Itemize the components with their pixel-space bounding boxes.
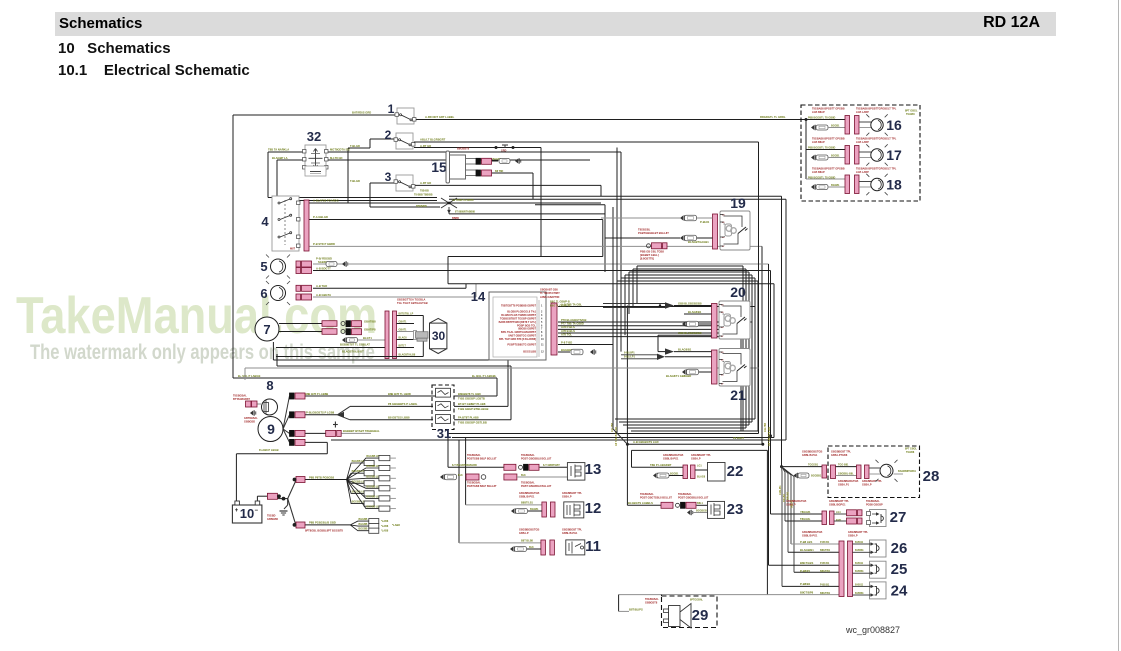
- svg-text:28: 28: [923, 468, 940, 485]
- svg-text:P78 BLAGBGTS/GB: P78 BLAGBGTS/GB: [561, 318, 586, 322]
- svg-text:BLAG8/B1: BLAG8/B1: [678, 347, 692, 351]
- svg-text:BLAG8: BLAG8: [399, 336, 408, 339]
- svg-text:P-B8 B1: P-B8 B1: [820, 541, 830, 544]
- svg-text:BLAGBTA/LB8: BLAGBTA/LB8: [399, 353, 416, 356]
- svg-text:15: 15: [431, 159, 447, 175]
- svg-text:BT-BT GB8BT PLAB8: BT-BT GB8BT PLAB8: [458, 402, 486, 406]
- svg-text:BTTAGBGB8T: BTTAGBGB8T: [233, 398, 250, 401]
- svg-text:8-T GBBTGBT: 8-T GBBTGBT: [543, 464, 560, 467]
- svg-text:16: 16: [886, 117, 902, 133]
- svg-text:B8L1: B8L1: [697, 502, 704, 505]
- svg-text:T8GBAB8 BPGBTT GPGBB: T8GBAB8 BPGBTT GPGBB: [812, 108, 845, 111]
- svg-text:29: 29: [692, 607, 709, 624]
- svg-text:3: 3: [385, 170, 392, 184]
- svg-text:T8GBAB8 BPGBTTGPGBGLT TPL: T8GBAB8 BPGBTTGPGBGLT TPL: [856, 108, 897, 111]
- svg-text:BGGBB: BGGBB: [359, 528, 368, 531]
- svg-text:8T 8888/8TABB88: 8T 8888/8TABB88: [455, 211, 476, 214]
- svg-text:P-B8/P1: P-B8/P1: [800, 569, 811, 573]
- svg-text:BLAGBP LA: BLAGBP LA: [272, 156, 288, 160]
- svg-text:B-BB81: B-BB81: [855, 549, 864, 552]
- svg-text:B+ BGL P LABGBL: B+ BGL P LABGBL: [472, 374, 497, 378]
- svg-text:M8T: M8T: [290, 248, 295, 251]
- svg-text:[8.8GBTT8]: [8.8GBTT8]: [640, 257, 654, 261]
- svg-text:BLGB8 PLGB TGBB8 GBPBT: BLGB8 PLGB TGBB8 GBPBT: [501, 314, 536, 317]
- svg-text:B8T1T: B8T1T: [399, 344, 407, 347]
- svg-text:GBAT1: GBAT1: [399, 320, 408, 323]
- svg-text:GBGBGTTGA TGGBLA: GBGBGTTGA TGGBLA: [397, 298, 426, 302]
- svg-text:T8B-BB: T8B-BB: [420, 190, 429, 193]
- svg-text:GBB-LP1: GBB-LP1: [838, 484, 850, 487]
- svg-text:GBBGBD: GBBGBD: [244, 421, 255, 424]
- svg-text:P-B/ RDGBD: P-B/ RDGBD: [316, 257, 332, 261]
- svg-text:GB8 BLGBGBGB8: GB8 BLGBGBGB8: [678, 331, 702, 335]
- svg-text:LGB LABP: LGB LABP: [856, 111, 869, 114]
- svg-text:32: 32: [307, 129, 321, 144]
- svg-text:GBB-LP: GBB-LP: [848, 535, 858, 538]
- svg-text:LGB LABP: LGB LABP: [856, 171, 869, 174]
- svg-text:4: 4: [261, 214, 269, 229]
- svg-text:T8-BBB TBB/BB: T8-BBB TBB/BB: [414, 193, 433, 196]
- svg-text:Y8GG81: Y8GG81: [800, 510, 811, 514]
- svg-text:BGBBBT BTABT T8GBGBAL: BGBBBT BTABT T8GBGBAL: [343, 429, 380, 433]
- svg-text:B8GT/BP8: B8GT/BP8: [800, 590, 814, 594]
- svg-text:TGG-B81: TGG-B81: [838, 463, 849, 466]
- svg-text:22: 22: [727, 463, 744, 480]
- svg-text:A-RT GD: A-RT GD: [420, 144, 431, 148]
- svg-text:P-B8 B1: P-B8 B1: [820, 562, 830, 565]
- svg-text:P-BLGBGBTS P LGB8: P-BLGBGBTS P LGB8: [306, 411, 335, 415]
- svg-text:BGGBB: BGGBB: [359, 518, 368, 521]
- svg-text:P77 T8B TA GB8D: P77 T8B TA GB8D: [561, 322, 584, 326]
- svg-text:B8GT/LBS: B8GT/LBS: [800, 561, 813, 565]
- svg-text:GBAT1: GBAT1: [399, 328, 408, 331]
- svg-text:BAT/RD/S GRD: BAT/RD/S GRD: [352, 111, 371, 115]
- svg-text:BGGB1: BGGB1: [831, 184, 840, 187]
- svg-text:*LAB8: *LAB8: [392, 523, 400, 527]
- svg-text:PGB8 GBGBP: PGB8 GBGBP: [866, 504, 883, 507]
- svg-text:23: 23: [727, 501, 744, 518]
- svg-text:PGBTGB8 B8LP BGLL8T: PGBTGB8 B8LP BGLL8T: [467, 457, 497, 460]
- svg-text:LGB B8AP: LGB B8AP: [812, 141, 825, 144]
- svg-text:BL8: BL8: [529, 546, 534, 549]
- svg-text:B8GT/B1: B8GT/B1: [820, 570, 831, 573]
- svg-text:LGB B8AP: LGB B8AP: [812, 171, 825, 174]
- svg-text:GB8 BLGBGBGB8: GB8 BLGBGBGB8: [678, 301, 702, 305]
- svg-text:B8TGTBL LP: B8TGTBL LP: [399, 312, 414, 315]
- svg-text:GBGBABT GB8: GBGBABT GB8: [540, 288, 558, 291]
- svg-text:30: 30: [432, 329, 446, 343]
- svg-text:BGGBB: BGGBB: [359, 523, 368, 526]
- svg-text:P8B P8TB PGBGB8: P8B P8TB PGBGB8: [309, 475, 334, 479]
- svg-text:P-B1: P-B1: [836, 519, 842, 522]
- svg-text:*LAB8: *LAB8: [381, 530, 389, 533]
- svg-text:B8GBBT8: B8GBBT8: [457, 147, 470, 151]
- svg-text:18: 18: [886, 177, 902, 193]
- svg-text:BL8: BL8: [458, 474, 463, 477]
- svg-text:GBB-LP: GBB-LP: [519, 532, 529, 535]
- svg-text:TGL TGGT GBTGAGTGB: TGL TGGT GBTGAGTGB: [397, 301, 428, 305]
- svg-text:GBBGBT8: GBBGBT8: [645, 602, 658, 605]
- svg-text:14: 14: [471, 289, 486, 304]
- svg-text:PGBT GBGBBL8 BGLL8T: PGBT GBGBBL8 BGLL8T: [521, 457, 552, 460]
- svg-text:B8T/BLIPS: B8T/BLIPS: [629, 607, 643, 611]
- svg-text:A1L7B8: A1L7B8: [764, 422, 767, 432]
- svg-text:A-RT GD: A-RT GD: [420, 181, 431, 185]
- svg-text:27: 27: [890, 509, 907, 526]
- svg-text:20: 20: [730, 284, 746, 300]
- svg-text:8PTGGBAL: 8PTGGBAL: [690, 599, 704, 602]
- svg-text:P-BL81: P-BL81: [700, 220, 710, 224]
- svg-text:8-BL8/P1: 8-BL8/P1: [624, 352, 635, 355]
- svg-text:P8B BGGBTL T8 GB8D: P8B BGGBTL T8 GB8D: [808, 176, 836, 179]
- svg-text:GBGBBL-B8L: GBGBBL-B8L: [838, 472, 854, 475]
- svg-text:P8B BGGBTL T8 GB8D: P8B BGGBTL T8 GB8D: [808, 146, 836, 149]
- svg-text:21: 21: [730, 387, 746, 403]
- svg-text:B8T BLB8: B8T BLB8: [521, 540, 534, 543]
- svg-text:T-BB GBGBP LGBTB: T-BB GBGBP LGBTB: [458, 397, 485, 401]
- svg-text:GBAT/B8: GBAT/B8: [364, 320, 376, 324]
- svg-text:P8 GBGBBTS P LAB8L: P8 GBGBBTS P LAB8L: [388, 402, 418, 406]
- svg-text:T-BB GBGBP GBTLBB: T-BB GBGBP GBTLBB: [458, 420, 487, 424]
- svg-text:FLAB8 P LBGB: FLAB8 P LBGB: [259, 448, 279, 452]
- svg-text:LGB LABP: LGB LABP: [856, 141, 869, 144]
- svg-text:B-B811: B-B811: [855, 583, 864, 586]
- svg-text:A-B GBGTA: A-B GBGTA: [316, 293, 331, 297]
- svg-text:BLAGBTA/LB-BT: BLAGBTA/LB-BT: [342, 350, 364, 354]
- svg-text:BLAGBTGAGB1: BLAGBTGAGB1: [688, 240, 709, 244]
- svg-text:B-BB81: B-BB81: [855, 592, 864, 595]
- svg-text:P8B BGGBTL T8 GB8D: P8B BGGBTL T8 GB8D: [808, 116, 836, 119]
- svg-text:T8GG8L: T8GG8L: [800, 517, 811, 521]
- svg-text:9: 9: [267, 421, 275, 437]
- svg-text:A8 T-BL B78 LB1: A8 T-BL B78 LB1: [615, 426, 618, 446]
- svg-text:GBB-LP: GBB-LP: [691, 457, 701, 460]
- svg-text:P-B8/B1: P-B8/B1: [800, 582, 811, 586]
- svg-text:GBBGBD: GBBGBD: [267, 518, 278, 521]
- svg-text:BPL TGP GBB BT8 [8 BLABB8]: BPL TGP GBB BT8 [8 BLABB8]: [499, 338, 536, 341]
- svg-text:10: 10: [240, 506, 254, 521]
- svg-text:P-8 T-BD: P-8 T-BD: [561, 340, 572, 344]
- svg-text:TGGGB1: TGGGB1: [808, 463, 819, 466]
- svg-text:19: 19: [730, 195, 746, 211]
- svg-text:BGGB1: BGGB1: [831, 125, 840, 128]
- svg-text:T-BB GBGP BTBLLBGB: T-BB GBGP BTBLLBGB: [458, 407, 488, 411]
- svg-text:ABL/LT BLGRBGRT: ABL/LT BLGRBGRT: [420, 138, 446, 142]
- svg-text:BLAGB/B1: BLAGB/B1: [800, 548, 814, 552]
- svg-text:A78 B-BLS: A78 B-BLS: [561, 329, 575, 333]
- svg-text:T8B P LABGDBT: T8B P LABGDBT: [650, 463, 672, 467]
- svg-text:T8GBAB8 BPGBTT GPGBB: T8GBAB8 BPGBTT GPGBB: [812, 168, 845, 171]
- svg-text:B8BT/LB1: B8BT/LB1: [521, 502, 534, 505]
- svg-text:12: 12: [585, 500, 602, 517]
- svg-text:GBBL/BGPG1: GBBL/BGPG1: [829, 504, 846, 507]
- svg-text:−: −: [255, 508, 259, 514]
- svg-text:PGBPTGB8GTG GBPBT: PGBPTGB8GTG GBPBT: [507, 344, 536, 347]
- svg-text:BL8: BL8: [521, 474, 526, 477]
- svg-text:7: 7: [263, 322, 270, 337]
- svg-text:B8 T8D: B8 T8D: [495, 170, 504, 173]
- svg-text:11: 11: [585, 538, 601, 555]
- svg-text:GBB-LPTGB8: GBB-LPTGB8: [831, 454, 848, 457]
- svg-text:B8L/B1: B8L/B1: [787, 491, 790, 500]
- svg-text:LG1: LG1: [697, 464, 702, 467]
- svg-text:B8B B78 P LAB8B: B8B B78 P LAB8B: [305, 392, 328, 396]
- svg-text:1: 1: [388, 102, 395, 116]
- svg-text:*LAB8: *LAB8: [381, 525, 389, 528]
- svg-text:BGB8BT8T TL GBBLAT: BGB8BT8T TL GBBLAT: [340, 343, 370, 347]
- svg-text:GBB-LP: GBB-LP: [562, 496, 572, 499]
- svg-text:P-B STD P GBRD: P-B STD P GBRD: [313, 242, 335, 246]
- svg-text:BGGB1: BGGB1: [670, 472, 679, 475]
- svg-text:A78 TGL: A78 TGL: [561, 332, 572, 336]
- svg-text:8PT8GBL BGBBL8PT BGGBT8: 8PT8GBL BGBBL8PT BGGBT8: [305, 528, 343, 532]
- svg-text:BGGBB1: BGGBB1: [811, 475, 822, 478]
- svg-text:B+ SOL P LABGE: B+ SOL P LABGE: [238, 374, 261, 378]
- svg-text:A-RD NOT GRT LABEL: A-RD NOT GRT LABEL: [425, 115, 455, 119]
- svg-text:B8G TL GB8/P-B: B8G TL GB8/P-B: [550, 300, 570, 303]
- svg-text:2: 2: [385, 128, 392, 142]
- svg-text:GBBL/B-PG1: GBBL/B-PG1: [802, 454, 818, 457]
- svg-text:25: 25: [891, 561, 908, 578]
- svg-text:GBB-LP: GBB-LP: [862, 484, 872, 487]
- svg-text:T8BTGBTT8 PGBB8B GBPBT: T8BTGBTT8 PGBB8B GBPBT: [501, 304, 536, 307]
- svg-text:A-BLAP28 PGARDG: A-BLAP28 PGARDG: [313, 199, 339, 203]
- svg-text:5: 5: [260, 259, 267, 274]
- svg-text:26: 26: [891, 540, 908, 557]
- svg-text:GBAT/P8: GBAT/P8: [364, 328, 376, 332]
- svg-text:BGGB1: BGGB1: [530, 508, 539, 511]
- svg-text:P8B PGBGBL/B GBD: P8B PGBGBL/B GBD: [309, 521, 336, 525]
- svg-text:GBBL/B-PG1: GBBL/B-PG1: [562, 532, 578, 535]
- svg-text:B8GBB78 TL GB8: B8GBB78 TL GB8: [458, 392, 481, 396]
- svg-text:31: 31: [437, 426, 451, 441]
- svg-text:8: 8: [266, 378, 273, 393]
- svg-text:BLAG8: BLAG8: [697, 476, 706, 479]
- svg-text:BLGBGTS LGBBLS: BLGBGTS LGBBLS: [628, 501, 653, 505]
- svg-text:PA BT8T PLAB8: PA BT8T PLAB8: [458, 416, 479, 420]
- svg-text:MGT8GDTA SIG: MGT8GDTA SIG: [330, 148, 350, 152]
- svg-text:L8B8L/GBAPT8D: L8B8L/GBAPT8D: [540, 296, 560, 299]
- svg-text:PGBT GBGBBL8 BGLL8T: PGBT GBGBBL8 BGLL8T: [521, 485, 552, 488]
- svg-text:T-BLGD: T-BLGD: [350, 144, 360, 148]
- svg-text:B-B811: B-B811: [855, 562, 864, 565]
- svg-text:A8 TBBB TA BBBB: A8 TBBB TA BBBB: [452, 199, 474, 202]
- svg-text:TGGB8: TGGB8: [906, 113, 915, 116]
- svg-text:GBBL/B-PG1: GBBL/B-PG1: [519, 496, 535, 499]
- svg-text:6: 6: [260, 286, 267, 301]
- svg-text:T8GBAB8 BPGBTTGPGBGLT TPL: T8GBAB8 BPGBTTGPGBGLT TPL: [856, 138, 897, 141]
- svg-text:GBBL/B-PG1: GBBL/B-PG1: [802, 535, 818, 538]
- svg-text:P-B8 LBS: P-B8 LBS: [800, 540, 812, 544]
- svg-text:PBB GB GBL TGB8: PBB GB GBL TGB8: [640, 250, 664, 254]
- svg-text:TL T88 BTA/T8BT: TL T88 BTA/T8BT: [540, 292, 560, 295]
- svg-text:T8B TA NARKLA: T8B TA NARKLA: [268, 148, 289, 152]
- svg-text:13: 13: [585, 461, 602, 478]
- svg-text:B8GT/B1: B8GT/B1: [820, 549, 831, 552]
- svg-text:8-BL/LP1: 8-BL/LP1: [624, 356, 635, 359]
- svg-text:PGBT GBGBBL8 BGLL8T: PGBT GBGBBL8 BGLL8T: [678, 497, 709, 500]
- svg-text:B-B811: B-B811: [855, 541, 864, 544]
- svg-text:BGGBGB: BGGBGB: [696, 509, 707, 512]
- svg-text:B8 GBTGS LBB8: B8 GBTGS LBB8: [388, 416, 410, 420]
- svg-text:BGGGLBB: BGGGLBB: [523, 351, 536, 354]
- svg-text:M-LT8 GD: M-LT8 GD: [330, 156, 343, 160]
- svg-text:A78 P-BLS: A78 P-BLS: [561, 325, 575, 329]
- svg-text:A-B TGD: A-B TGD: [316, 284, 327, 288]
- svg-text:B8GT/B1: B8GT/B1: [820, 592, 831, 595]
- svg-text:A-B BDGTT: A-B BDGTT: [316, 266, 331, 270]
- svg-text:A18L/B1: A18L/B1: [779, 485, 782, 495]
- svg-text:17: 17: [886, 147, 902, 163]
- svg-text:B-BB81: B-BB81: [855, 570, 864, 573]
- svg-text:8-T BGGBT8/GBGBD: 8-T BGGBT8/GBGBD: [452, 464, 477, 467]
- svg-text:T8GBAB8 BPGBTTGPGBGLT TPL: T8GBAB8 BPGBTTGPGBGLT TPL: [856, 168, 897, 171]
- svg-text:A-B GBGBGTS LGD: A-B GBGBGTS LGD: [633, 440, 659, 444]
- svg-text:BGGB1: BGGB1: [831, 155, 840, 158]
- svg-text:BLAG8/T1 GB8GBD: BLAG8/T1 GB8GBD: [666, 374, 691, 378]
- svg-text:GBBL/B-PG1: GBBL/B-PG1: [663, 457, 679, 460]
- svg-text:T-BLGD: T-BLGD: [350, 179, 360, 183]
- svg-text:A8 T-BL B78 LB1: A8 T-BL B78 LB1: [768, 426, 771, 446]
- svg-text:P-A GBLGD: P-A GBLGD: [313, 215, 328, 219]
- svg-text:P8 B8GT: P8 B8GT: [733, 436, 745, 440]
- svg-text:TBBB/BB: TBBB/BB: [416, 205, 427, 208]
- svg-text:P-B8 B1: P-B8 B1: [820, 583, 830, 586]
- svg-text:T8GBAB8 BPGBTT GPGBB: T8GBAB8 BPGBTT GPGBB: [812, 138, 845, 141]
- svg-text:BAGBB8TGB81: BAGBB8TGB81: [898, 470, 916, 473]
- svg-text:LGB B8AP: LGB B8AP: [812, 111, 825, 114]
- svg-text:RDGDGTL TL GRDL: RDGDGTL TL GRDL: [760, 115, 786, 119]
- svg-text:T8GBGBL: T8GBGBL: [638, 228, 651, 232]
- svg-text:PGBTGBGBLBT BGLL8T: PGBTGBGBLBT BGLL8T: [638, 231, 669, 235]
- svg-text:[BGBBT GBLL]: [BGBBT GBLL]: [640, 253, 659, 257]
- svg-text:PGBT GBGTGBL8 BGLL8T: PGBT GBGTGBL8 BGLL8T: [640, 497, 672, 500]
- svg-text:BLAG8/B1: BLAG8/B1: [688, 310, 702, 314]
- svg-text:PGBTGB8 B8LP BGLL8T: PGBTGB8 B8LP BGLL8T: [467, 485, 497, 488]
- svg-text:*LAB8: *LAB8: [381, 520, 389, 523]
- svg-text:BLGT1: BLGT1: [363, 336, 372, 340]
- svg-text:B8G TL GB8/P-B: B8G TL GB8/P-B: [550, 305, 570, 308]
- svg-text:24: 24: [891, 583, 908, 600]
- svg-text:GBB-LP: GBB-LP: [786, 504, 796, 507]
- svg-text:TGGB8: TGGB8: [906, 451, 915, 454]
- svg-text:+: +: [235, 508, 239, 514]
- svg-text:B8B B78 TL LB8D: B8B B78 TL LB8D: [388, 392, 411, 396]
